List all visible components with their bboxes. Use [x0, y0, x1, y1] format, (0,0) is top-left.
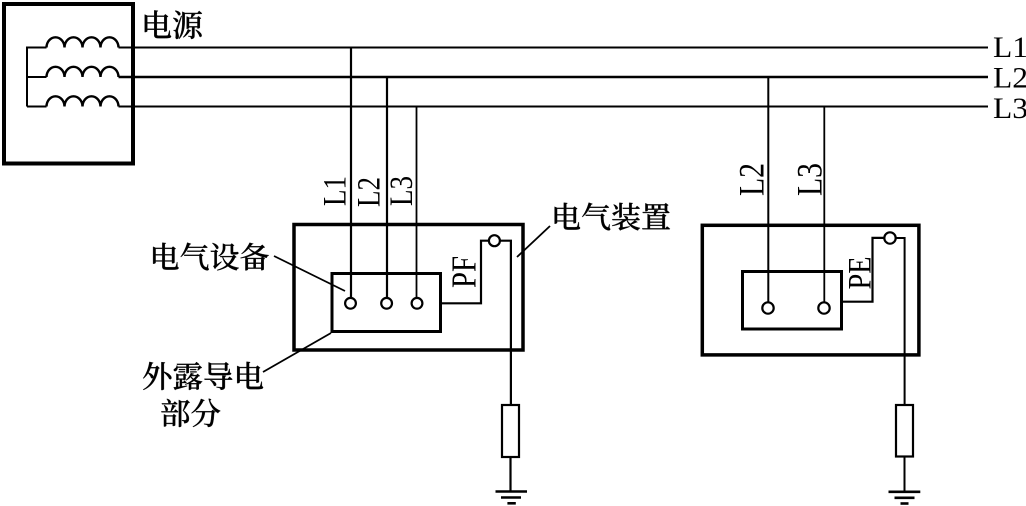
- svg-text:L2: L2: [732, 163, 772, 196]
- pointer line from label "exposed conductive part" to equipment box corner: [263, 333, 331, 372]
- label: power source (dian yuan): [145, 10, 202, 39]
- label: exposed conductive part line 1 (wai lu dao dian): [143, 362, 263, 390]
- tap wire L1 to device 1: [350, 48, 352, 299]
- label: electrical installation (dian qi zhuang zhi): [555, 203, 670, 231]
- device 1 enclosure box (electrical installation): [294, 225, 523, 351]
- ground symbol 1: [496, 492, 528, 504]
- ground symbol 2: [889, 492, 921, 504]
- tap wire L2 to device 2: [767, 77, 769, 302]
- label: exposed conductive part line 2 (bu fen): [161, 399, 220, 427]
- source winding phase L2: [47, 67, 119, 77]
- source winding phase L3: [47, 96, 119, 106]
- PF terminal circle of device 1: [489, 235, 500, 246]
- tap wire L3 to device 1: [416, 107, 418, 299]
- pointer line from label "electrical installation" to enclosure: [517, 226, 550, 257]
- tap wire L2 to device 1: [386, 77, 388, 298]
- svg-text:PE: PE: [843, 257, 879, 290]
- line conductor L1 (wire): [119, 47, 989, 49]
- source box (power supply): [4, 4, 133, 164]
- svg-text:L1: L1: [318, 176, 354, 206]
- terminal L2 of device 1: [381, 298, 392, 309]
- svg-text:PF: PF: [446, 256, 484, 288]
- PE terminal circle of device 2: [884, 232, 895, 243]
- earthing resistor of device 2: [896, 405, 913, 457]
- line conductor L2 (wire): [119, 76, 989, 79]
- tap wire L3 to device 2: [823, 107, 825, 303]
- line conductor L3 (wire): [119, 106, 989, 108]
- PE protective conductor wire of device 2: [843, 238, 884, 302]
- source winding phase L1: [47, 37, 119, 47]
- pointer line from label "electrical equipment" to equipment box: [274, 256, 345, 291]
- svg-text:L2: L2: [993, 62, 1026, 95]
- svg-text:L3: L3: [384, 176, 420, 206]
- winding common connector wire: [26, 47, 28, 107]
- earthing resistor of device 1: [502, 405, 519, 457]
- terminal L1 of device 1: [345, 298, 356, 309]
- earthing conductor wire of device 1: [500, 241, 511, 405]
- PF protective conductor wire of device 1: [442, 241, 489, 304]
- svg-text:L2: L2: [352, 177, 388, 207]
- earthing conductor wire of device 2: [896, 238, 905, 405]
- wire resistor to ground 2: [904, 457, 906, 492]
- svg-text:L3: L3: [790, 163, 830, 196]
- terminal L3 of device 1: [412, 298, 423, 309]
- svg-text:L1: L1: [993, 31, 1026, 64]
- device 2 enclosure box (electrical installation): [702, 225, 919, 355]
- svg-text:L3: L3: [993, 92, 1026, 125]
- terminal L2 of device 2: [762, 302, 773, 313]
- terminal L3 of device 2: [818, 302, 829, 313]
- device 2 equipment box: [743, 272, 842, 330]
- device 1 equipment box: [332, 274, 441, 332]
- wire resistor to ground 1: [509, 457, 511, 492]
- winding lead wires: [27, 48, 47, 107]
- label: electrical equipment (dian qi she bei): [153, 243, 269, 271]
